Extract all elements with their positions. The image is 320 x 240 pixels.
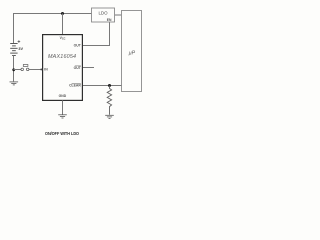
node top rail junction [61, 12, 64, 15]
LDO box [92, 8, 115, 22]
battery plus sign [18, 40, 21, 43]
svg-text:LDO: LDO [98, 11, 108, 16]
svg-text:MAX16054: MAX16054 [48, 54, 76, 60]
battery B1 3V [10, 44, 17, 56]
wire LDO to uP [115, 14, 122, 16]
svg-text:CLEAR: CLEAR [69, 84, 81, 88]
wire junction to pushbutton [14, 69, 22, 71]
wire IC GND down [62, 100, 64, 114]
svg-text:μP: μP [128, 50, 136, 56]
ground resistor [105, 115, 114, 118]
IC U1 MAX16054 box [43, 35, 83, 101]
svg-text:EN: EN [107, 18, 112, 22]
svg-text:OUT: OUT [74, 44, 82, 48]
node battery/button junction [12, 68, 15, 71]
wire top rail from battery to LDO [14, 14, 92, 44]
wire OUT-bar stub [83, 67, 94, 69]
wire pushbutton to IN [29, 69, 42, 71]
svg-text:GND: GND [59, 94, 67, 98]
uP box [122, 11, 142, 92]
svg-text:VCC: VCC [60, 36, 66, 41]
svg-text:3V: 3V [18, 47, 23, 51]
node CLEAR junction [108, 84, 111, 87]
svg-text:IN: IN [44, 68, 48, 72]
wire battery negative down [13, 56, 15, 82]
node IN pin nub [41, 69, 43, 71]
wire CLEAR to uP [83, 85, 122, 87]
svg-text:OUT: OUT [74, 66, 82, 70]
resistor R1 pulldown [107, 86, 111, 115]
ground battery [10, 82, 19, 85]
pushbutton S1 [21, 65, 29, 71]
ground IC [58, 115, 67, 118]
wire OUT to LDO EN [83, 22, 110, 46]
wire VCC from top rail to IC [62, 14, 64, 35]
svg-text:ON/OFF WITH LDO: ON/OFF WITH LDO [45, 131, 79, 136]
